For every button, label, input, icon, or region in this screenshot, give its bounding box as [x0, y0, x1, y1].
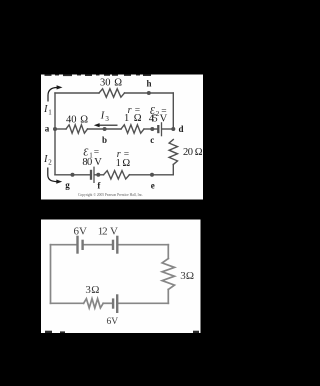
- wire node a to 40ohm: [55, 128, 66, 130]
- wire right side top corner to node d: [172, 93, 174, 129]
- wire top side to 6V battery: [51, 244, 77, 246]
- node h: [147, 91, 151, 95]
- svg-text:V: V: [160, 114, 168, 125]
- wire bottom side node e to corner: [129, 174, 173, 176]
- wire 20ohm to bottom-right corner: [172, 165, 174, 175]
- svg-text:45: 45: [149, 114, 158, 125]
- wire top side left of 30ohm: [55, 92, 99, 94]
- svg-text:Ω: Ω: [114, 78, 122, 89]
- panel 1 background: [41, 75, 203, 200]
- svg-text:Ω: Ω: [134, 113, 142, 124]
- svg-text:h: h: [146, 79, 151, 89]
- wire bottom left of resistor: [51, 302, 84, 304]
- node b: [103, 127, 107, 131]
- wire left corner through node g to battery: [55, 174, 90, 176]
- svg-text:6V: 6V: [106, 317, 118, 327]
- wire bottom battery to 3ohm resistor: [103, 302, 112, 304]
- svg-text:V: V: [94, 157, 102, 168]
- wire bottom right of battery: [118, 302, 168, 304]
- wire loop left side: [50, 245, 52, 304]
- resistor 40ohm: [66, 125, 88, 133]
- svg-text:d: d: [178, 124, 183, 134]
- wire between batteries: [84, 244, 112, 246]
- battery EMF1 80V plates: [91, 167, 94, 183]
- cut-off text remnants top of panel 1: [45, 75, 152, 77]
- svg-text:Ω: Ω: [80, 115, 88, 126]
- svg-text:c: c: [150, 135, 154, 145]
- svg-text:b: b: [102, 135, 107, 145]
- svg-text:12: 12: [98, 225, 108, 237]
- svg-text:1: 1: [48, 109, 52, 117]
- svg-text:g: g: [65, 180, 70, 190]
- node a: [53, 127, 57, 131]
- svg-text:3: 3: [105, 115, 109, 123]
- battery 12V plates: [113, 236, 117, 254]
- svg-text:1: 1: [116, 158, 121, 169]
- node e: [150, 173, 154, 177]
- battery EMF2 45V plates: [158, 122, 161, 136]
- svg-text:I: I: [100, 111, 105, 122]
- current arrow I3: [97, 124, 118, 126]
- svg-text:Ω: Ω: [122, 158, 130, 169]
- svg-text:30: 30: [100, 78, 111, 89]
- wire left side: [54, 93, 56, 175]
- wire 40ohm to node b to 1ohm: [88, 128, 122, 130]
- resistor 3ohm bottom: [84, 299, 104, 308]
- svg-text:1: 1: [124, 113, 129, 124]
- svg-text:3Ω: 3Ω: [180, 270, 194, 282]
- wire top side right of 30ohm through node h: [125, 92, 174, 94]
- svg-text:40: 40: [66, 115, 77, 126]
- resistor r 1ohm middle branch: [121, 125, 144, 133]
- resistor r 1ohm bottom branch: [104, 171, 130, 179]
- resistor R 30ohm: [99, 89, 125, 97]
- wire battery to node d: [162, 128, 173, 130]
- resistor 20ohm right side: [169, 140, 177, 165]
- wire 1ohm to node c to battery: [144, 128, 157, 130]
- svg-text:e: e: [151, 181, 155, 191]
- svg-text:20: 20: [183, 147, 193, 158]
- node f: [96, 173, 100, 177]
- wire right side bottom: [167, 290, 169, 304]
- wire node f to 1ohm resistor: [95, 174, 103, 176]
- svg-text:I: I: [43, 154, 48, 165]
- battery 6V top plates: [78, 236, 83, 254]
- current arrow I1: [48, 88, 57, 102]
- node d: [171, 127, 175, 131]
- panel 2 background: [41, 220, 201, 334]
- svg-text:2: 2: [48, 159, 52, 167]
- wire right side top: [167, 245, 169, 259]
- battery 6V bottom plates: [113, 294, 117, 313]
- svg-text:a: a: [45, 124, 50, 134]
- svg-text:I: I: [43, 104, 48, 115]
- resistor 3ohm right: [162, 259, 174, 290]
- svg-text:Ω: Ω: [195, 147, 203, 158]
- svg-text:6V: 6V: [74, 225, 88, 237]
- node g: [71, 173, 75, 177]
- current arrow I2: [48, 168, 57, 182]
- svg-text:3Ω: 3Ω: [85, 284, 99, 296]
- svg-text:V: V: [110, 225, 118, 237]
- cut-off text remnants bottom of panel 2: [45, 331, 199, 333]
- node c: [150, 127, 154, 131]
- svg-text:80: 80: [82, 157, 92, 168]
- wire 12V battery to right corner: [119, 244, 169, 246]
